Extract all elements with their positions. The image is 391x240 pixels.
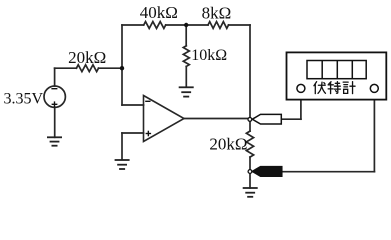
svg-text:20kΩ: 20kΩ: [209, 135, 247, 154]
svg-text:10kΩ: 10kΩ: [191, 47, 227, 64]
svg-text:3.35V: 3.35V: [4, 90, 44, 107]
svg-text:40kΩ: 40kΩ: [140, 3, 178, 22]
svg-text:8kΩ: 8kΩ: [202, 3, 232, 22]
svg-text:20kΩ: 20kΩ: [68, 48, 106, 67]
